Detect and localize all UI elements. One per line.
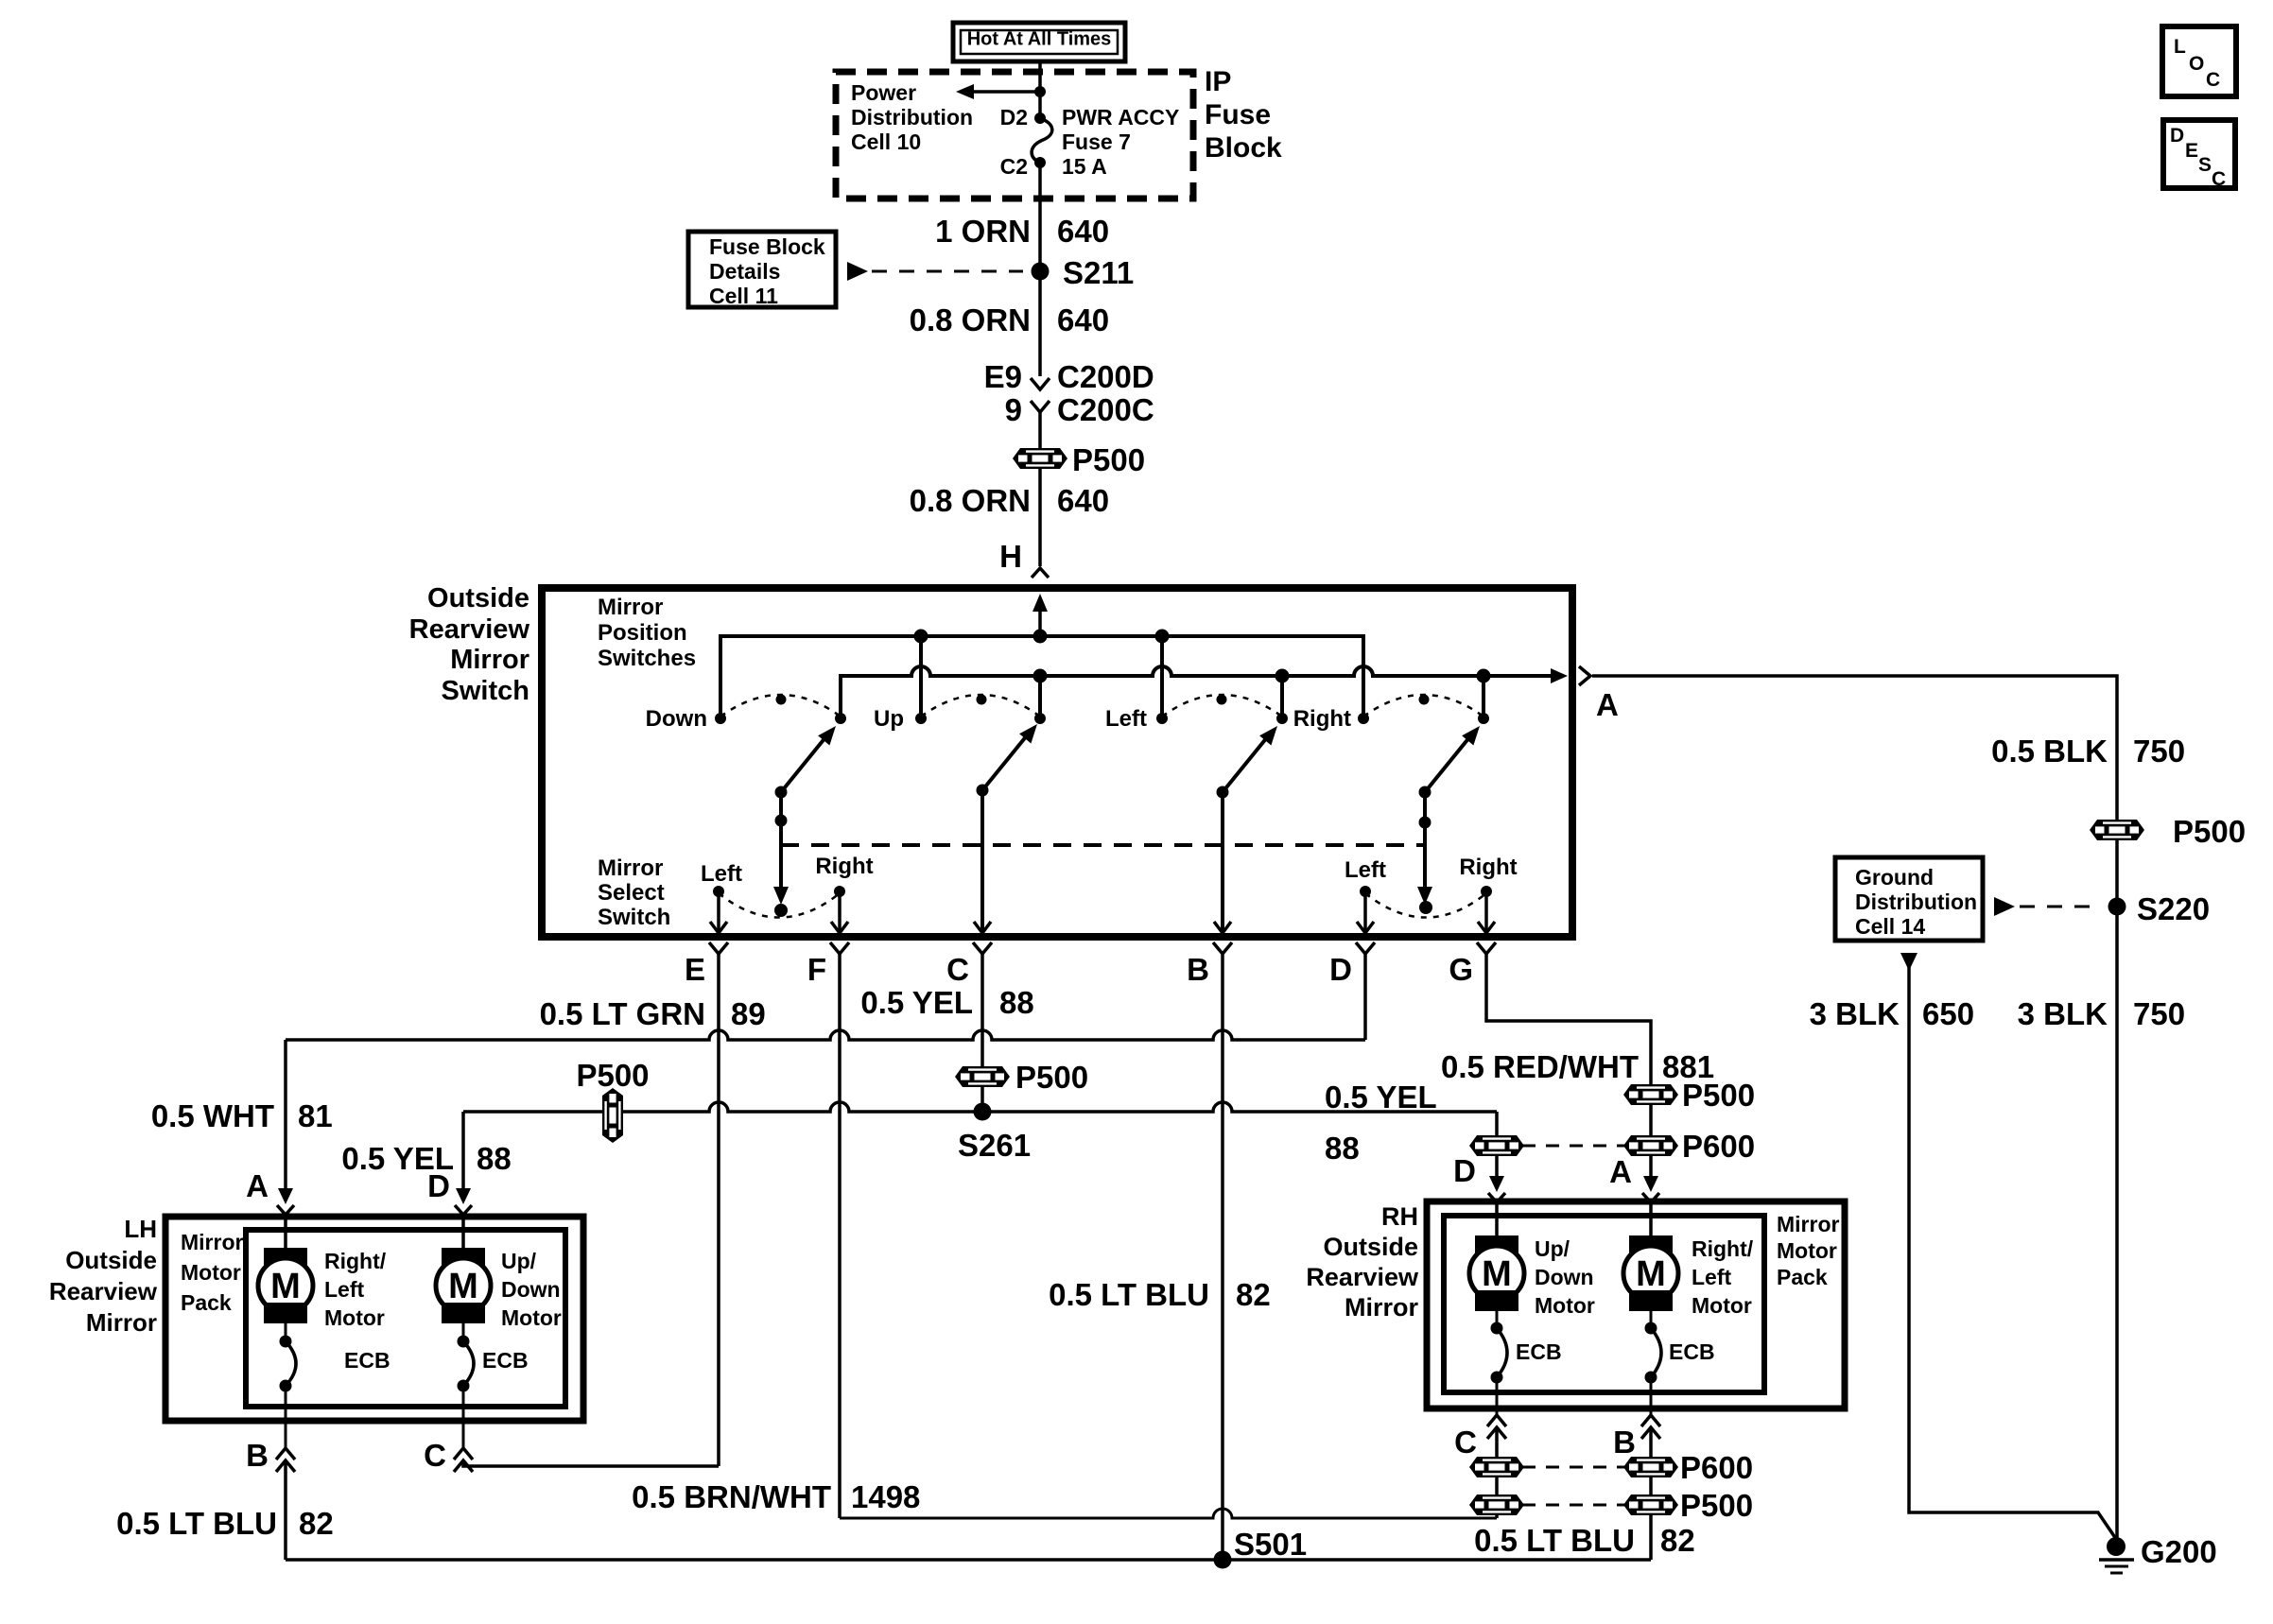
svg-text:0.5 YEL: 0.5 YEL (1325, 1080, 1437, 1114)
svg-text:E: E (685, 952, 705, 987)
connector P600 in-line (RH D wire) (1469, 1135, 1524, 1156)
svg-text:Pack: Pack (181, 1290, 232, 1315)
wire: select Right to pin F (arrow) (838, 891, 842, 932)
svg-text:0.5 BLK: 0.5 BLK (1991, 734, 2108, 769)
svg-text:0.5 LT BLU: 0.5 LT BLU (1474, 1523, 1635, 1558)
svg-text:0.5 LT BLU: 0.5 LT BLU (116, 1506, 277, 1541)
wire: wiper pair3 to pin B (arrow) (1221, 792, 1224, 932)
svg-text:Cell 14: Cell 14 (1855, 914, 1925, 939)
svg-text:Up/: Up/ (1535, 1236, 1570, 1261)
bus: switch power bus (upper) (720, 636, 1363, 718)
wire: 1 ORN 640 from fuse to S211 (1038, 163, 1042, 271)
svg-text:Left: Left (1345, 857, 1386, 883)
wire: pin G drop and over to RH pin A (1486, 953, 1651, 1178)
pointer from Ground Distribution to S220 (1994, 897, 2015, 916)
svg-text:Mirror: Mirror (1345, 1293, 1419, 1322)
wire: RH pin A to motor (1649, 1201, 1653, 1237)
select link left (dashed arc) (719, 893, 840, 918)
pin C of RH mirror (connector) (1487, 1415, 1506, 1426)
svg-text:P500: P500 (1680, 1488, 1753, 1523)
svg-text:Right/: Right/ (1692, 1236, 1754, 1261)
svg-text:D: D (1453, 1153, 1476, 1188)
dashed link between P600 halves (top) (1522, 1145, 1625, 1148)
wire: arrow to power distribution (961, 90, 1040, 94)
svg-text:Switches: Switches (598, 646, 696, 671)
svg-text:640: 640 (1057, 483, 1109, 518)
svg-text:Mirror: Mirror (1777, 1212, 1840, 1236)
svg-text:P500: P500 (1015, 1060, 1088, 1095)
svg-text:Hot At All Times: Hot At All Times (967, 29, 1112, 50)
svg-text:Right/: Right/ (324, 1249, 387, 1273)
node: rocker pair4 apex (1419, 695, 1430, 705)
node S501 (1214, 1551, 1232, 1569)
svg-text:640: 640 (1057, 302, 1109, 337)
svg-text:O: O (2189, 53, 2204, 75)
pin C2 of fuse (1034, 157, 1046, 168)
svg-text:Motor: Motor (1535, 1293, 1595, 1318)
wire: LH motor1 to ECB (285, 1323, 287, 1341)
svg-text:0.5 LT BLU: 0.5 LT BLU (1049, 1277, 1209, 1312)
svg-text:Motor: Motor (501, 1305, 562, 1330)
svg-text:S220: S220 (2137, 891, 2210, 926)
wire: RH pin B down through connectors (1649, 1427, 1653, 1560)
wire: pin E drop (717, 953, 720, 1466)
svg-text:Outside: Outside (65, 1246, 157, 1274)
connector P500 in-line (ground wire) (2090, 820, 2144, 840)
svg-text:PWR ACCY: PWR ACCY (1062, 105, 1179, 130)
svg-text:ECB: ECB (344, 1348, 390, 1373)
svg-text:S: S (2198, 154, 2212, 176)
component box: RH mirror motor pack (outer) (1427, 1201, 1845, 1408)
contact: Left (1156, 713, 1168, 724)
svg-text:C: C (2212, 168, 2226, 190)
svg-text:3 BLK: 3 BLK (2018, 996, 2108, 1031)
svg-text:P500: P500 (576, 1058, 649, 1093)
connector P500 (main feed) (1013, 448, 1067, 469)
wire: RH pin D drop (1495, 1112, 1499, 1178)
wiper arm pair2 (arrow) (982, 730, 1032, 790)
svg-text:Fuse 7: Fuse 7 (1062, 130, 1131, 154)
svg-text:Ground: Ground (1855, 865, 1934, 890)
contact: select right-Right (1481, 886, 1492, 897)
pin A of mirror switch (connector) (1579, 666, 1590, 685)
node: return bus at pair3 contact (1275, 669, 1290, 683)
svg-text:0.8 ORN: 0.8 ORN (910, 483, 1031, 518)
circuit breaker ECB (LH motor2) (458, 1336, 470, 1348)
svg-text:Outside: Outside (1323, 1233, 1418, 1261)
svg-text:ECB: ECB (1669, 1339, 1715, 1364)
svg-text:0.5 LT GRN: 0.5 LT GRN (540, 996, 705, 1031)
svg-text:0.5 YEL: 0.5 YEL (860, 985, 973, 1020)
svg-text:C: C (2206, 69, 2220, 91)
svg-text:P600: P600 (1682, 1129, 1755, 1164)
pin B of mirror switch (connector) (1213, 942, 1232, 954)
svg-text:1 ORN: 1 ORN (935, 214, 1031, 249)
node: power distribution branch (1034, 86, 1046, 97)
wire: LH pin A drop (284, 1040, 287, 1190)
svg-text:Mirror: Mirror (450, 645, 529, 675)
node: select wiper right (1419, 901, 1432, 914)
svg-text:Pack: Pack (1777, 1265, 1828, 1289)
svg-text:Down: Down (1535, 1265, 1594, 1289)
pin F of mirror switch (connector) (830, 942, 849, 954)
connector P600 in-line (RH B wire) (1623, 1457, 1678, 1477)
callout box: Fuse Block Details Cell 11 (688, 232, 836, 307)
wire: LH pin C over to pin E wire (463, 1460, 719, 1466)
svg-text:E: E (2185, 140, 2198, 162)
wire: from C200C to P500 (1038, 412, 1042, 566)
component box: LH mirror motor pack (outer) (165, 1217, 583, 1421)
legend box: LOC (2162, 26, 2236, 96)
wire: LH pin D run to RH mirror pin D (horizontal) (463, 1102, 1497, 1112)
connector P500 in-line (RH B wire) (1623, 1494, 1678, 1515)
fuse F7 PWR ACCY 15A (squiggle symbol) (1032, 118, 1052, 163)
svg-text:M: M (1482, 1254, 1512, 1294)
wire: pin D drop (1363, 953, 1367, 1040)
pin A of RH mirror (connector) (1643, 1176, 1658, 1192)
svg-text:Left: Left (1692, 1265, 1732, 1289)
pin D of mirror switch (connector) (1356, 942, 1375, 954)
pin B of LH mirror (connector) (276, 1448, 295, 1460)
callout box: Ground Distribution Cell 14 (1835, 857, 1983, 941)
svg-text:650: 650 (1922, 996, 1974, 1031)
svg-text:Motor: Motor (1777, 1238, 1837, 1263)
pin A of LH mirror (connector) (278, 1188, 293, 1204)
svg-text:F: F (807, 952, 826, 987)
svg-text:Details: Details (709, 259, 780, 284)
node: wiper pivot pair1 (775, 786, 788, 799)
mechanical link (dashed) between wipers (781, 843, 1425, 847)
wire: wiper pair4 to select wiper (1423, 792, 1427, 890)
svg-text:82: 82 (1660, 1523, 1695, 1558)
svg-text:0.8 ORN: 0.8 ORN (910, 302, 1031, 337)
svg-text:81: 81 (298, 1098, 333, 1133)
svg-text:Up/: Up/ (501, 1249, 537, 1273)
svg-text:C200C: C200C (1057, 392, 1154, 427)
motor: LH Up/Down motor (442, 1248, 485, 1269)
motor: RH Right/Left motor (1629, 1235, 1673, 1256)
pin D of RH mirror (connector) (1489, 1176, 1504, 1192)
svg-text:C: C (1454, 1425, 1477, 1460)
pin G of mirror switch (connector) (1477, 942, 1496, 954)
wire: RH motor1 to ECB (1496, 1311, 1499, 1328)
svg-text:H: H (999, 539, 1022, 574)
node: return bus at pair4 contact (1477, 669, 1491, 683)
svg-text:Outside: Outside (427, 583, 529, 613)
contact: pair1 right (835, 713, 846, 724)
wire: LH pin A to motor (284, 1217, 287, 1250)
svg-text:Up: Up (874, 706, 904, 732)
node S220 (2108, 898, 2126, 916)
contact: Down (715, 713, 726, 724)
node: select wiper left (774, 904, 788, 917)
ground G200 (2107, 1537, 2126, 1556)
motor: LH Right/Left motor (264, 1248, 307, 1269)
wire: pin C drop (980, 953, 984, 1112)
svg-text:Left: Left (701, 861, 742, 887)
svg-text:A: A (246, 1168, 269, 1203)
node: wiper pivot pair3 (1217, 786, 1229, 799)
svg-text:Mirror: Mirror (598, 595, 663, 620)
svg-text:88: 88 (1325, 1131, 1360, 1166)
node: wiper pair1 mid (775, 815, 788, 827)
connector P600 in-line (RH C wire) (1469, 1457, 1524, 1477)
contact: select left-Right (834, 886, 845, 897)
svg-text:E9: E9 (984, 359, 1022, 394)
wire: return bus to contact (pair3) (1280, 676, 1284, 718)
svg-text:750: 750 (2133, 996, 2185, 1031)
wire: LH pin B down to ground run (284, 1460, 287, 1560)
legend box: DESC (2163, 120, 2235, 188)
svg-text:82: 82 (299, 1506, 334, 1541)
circuit breaker ECB (RH motor1) (1491, 1322, 1503, 1335)
svg-text:A: A (1596, 687, 1619, 722)
wire: select Right to pin G (arrow) (1484, 891, 1488, 932)
svg-text:0.5 RED/WHT: 0.5 RED/WHT (1441, 1049, 1639, 1084)
svg-text:0.5 BRN/WHT: 0.5 BRN/WHT (632, 1479, 831, 1514)
svg-text:LH: LH (124, 1215, 157, 1243)
wire: select Left to pin E (arrow) (717, 891, 720, 932)
contact: pair4 right (1478, 713, 1489, 724)
svg-text:Switch: Switch (442, 676, 529, 706)
contact: pair2 right (1034, 713, 1046, 724)
svg-text:Cell 11: Cell 11 (709, 284, 778, 308)
wire: pin B drop (1221, 953, 1224, 1560)
wire: pin A to ground (0.5 BLK 750) (1592, 676, 2117, 1538)
wire: bus to Left contact (1160, 636, 1164, 718)
svg-text:C2: C2 (1000, 154, 1028, 179)
svg-text:Distribution: Distribution (851, 105, 973, 130)
wire: bus to Up contact (919, 636, 923, 718)
svg-text:D: D (2170, 125, 2184, 147)
svg-text:P500: P500 (1072, 442, 1145, 477)
svg-text:G: G (1449, 952, 1473, 987)
connector C200D pin E9 / C200C pin 9 (1031, 378, 1050, 389)
svg-text:Right: Right (1459, 855, 1517, 880)
wire: wiper pair2 to pin C (arrow) (980, 790, 984, 932)
svg-text:B: B (1613, 1425, 1636, 1460)
dashed link between P500 halves (bottom) (1522, 1504, 1625, 1507)
svg-text:IP: IP (1205, 66, 1231, 97)
svg-text:ECB: ECB (1516, 1339, 1562, 1364)
svg-text:Rearview: Rearview (49, 1277, 158, 1305)
rocker link pair2 (dashed arc) (921, 695, 1040, 717)
pin E of mirror switch (connector) (709, 942, 728, 954)
circuit breaker ECB (LH motor1) (280, 1336, 292, 1348)
svg-text:Block: Block (1205, 132, 1282, 164)
svg-text:L: L (2174, 36, 2186, 58)
rocker link pair4 (dashed arc) (1363, 695, 1484, 717)
svg-text:D2: D2 (1000, 105, 1028, 130)
svg-text:Distribution: Distribution (1855, 890, 1977, 914)
contact: pair3 right (1276, 713, 1288, 724)
wire: RH pin C down through connectors (1495, 1427, 1499, 1518)
contact: Right (1358, 713, 1369, 724)
contact: select right-Left (1360, 886, 1371, 897)
wire: ground distribution drop (3 BLK 650) (1900, 953, 1917, 971)
svg-text:B: B (1187, 952, 1209, 987)
svg-text:P500: P500 (1682, 1078, 1755, 1113)
wire: pin D run to LH mirror pin A (horizontal) (286, 1030, 1365, 1040)
svg-text:82: 82 (1236, 1277, 1271, 1312)
wire: LH ECB1 to pin B (285, 1386, 287, 1448)
wire: 0.8 ORN 640 from S211 to C200 (1038, 271, 1042, 376)
bus: switch return bus (lower, to pin A) (841, 666, 1551, 718)
node S211 (1032, 263, 1050, 281)
wire: RH pin D to motor (1495, 1201, 1499, 1237)
node: rocker pair1 apex (776, 695, 787, 705)
svg-text:Mirror: Mirror (181, 1230, 244, 1254)
svg-text:Rearview: Rearview (409, 614, 530, 645)
node: bus junction at Up contact (914, 630, 928, 644)
svg-text:Power: Power (851, 80, 916, 105)
svg-text:640: 640 (1057, 214, 1109, 249)
pin C of mirror switch (connector) (973, 942, 992, 954)
svg-text:15 A: 15 A (1062, 154, 1107, 179)
svg-text:3 BLK: 3 BLK (1810, 996, 1900, 1031)
svg-text:Down: Down (501, 1277, 561, 1302)
svg-text:Fuse Block: Fuse Block (709, 234, 825, 259)
wire: return bus to contact (pair2) (1038, 676, 1042, 718)
pin C of LH mirror (connector) (454, 1448, 473, 1460)
connector P500 in-line (LH D wire, vertical) (602, 1088, 623, 1143)
wire: pin F run to RH pin C (horizontal) (840, 1509, 1497, 1518)
svg-text:0.5 WHT: 0.5 WHT (151, 1098, 274, 1133)
contact: Up (915, 713, 927, 724)
wire: RH motor2 to ECB (1650, 1311, 1653, 1328)
svg-text:Down: Down (646, 706, 707, 732)
node: wiper pivot pair4 (1419, 786, 1431, 799)
contact: select left-Left (713, 886, 724, 897)
rocker link pair3 (dashed arc) (1162, 695, 1282, 717)
svg-text:750: 750 (2133, 734, 2185, 769)
wire: RH ECB2 to pin B (1650, 1377, 1653, 1415)
node: rocker pair2 apex (977, 695, 987, 705)
component box: RH mirror motor pack (inner) (1444, 1216, 1764, 1392)
wire: return bus to contact (pair4) (1482, 676, 1485, 718)
wiper arm pair4 (arrow) (1425, 732, 1474, 792)
svg-text:88: 88 (477, 1141, 512, 1176)
node: wiper pivot pair2 (977, 785, 989, 797)
wire: LH ECB2 to pin C (462, 1386, 465, 1448)
pointer from Fuse Block Details to S211 (847, 262, 868, 281)
wire: pin F drop (838, 953, 842, 1518)
svg-text:A: A (1609, 1154, 1632, 1189)
wire: LH pin D to motor (461, 1217, 465, 1250)
node: return bus at pair2 contact (1033, 669, 1048, 683)
wire: LH pin D drop (461, 1112, 465, 1190)
wire: RH ECB1 to pin C (1496, 1377, 1499, 1415)
circuit breaker ECB (RH motor2) (1645, 1322, 1657, 1335)
wiper arm pair1 (arrow) (781, 732, 830, 792)
node: wiper pair4 mid (1419, 817, 1431, 829)
wire: ground run S501 (bottom horizontal) (286, 1558, 1651, 1562)
svg-text:M: M (270, 1267, 301, 1306)
power feed label box: Hot At All Times (953, 23, 1125, 61)
svg-text:RH: RH (1381, 1202, 1418, 1231)
IP Fuse Block (dashed outline) (836, 72, 1193, 199)
svg-text:1498: 1498 (851, 1479, 920, 1514)
connector P500 in-line (RH C wire) (1469, 1494, 1524, 1515)
svg-text:C200D: C200D (1057, 359, 1154, 394)
wire: wiper pair1 to select wiper (779, 792, 783, 890)
svg-text:M: M (1636, 1254, 1666, 1294)
svg-text:Motor: Motor (324, 1305, 385, 1330)
svg-text:D: D (1329, 952, 1352, 987)
svg-text:9: 9 (1005, 392, 1022, 427)
svg-text:Rearview: Rearview (1306, 1263, 1419, 1291)
node: bus junction at H feed (1033, 630, 1048, 644)
node S261 (974, 1103, 992, 1121)
svg-text:Motor: Motor (1692, 1293, 1752, 1318)
rocker link pair1 (dashed arc) (720, 695, 841, 717)
svg-text:G200: G200 (2141, 1534, 2217, 1569)
component box: Outside Rearview Mirror Switch (542, 588, 1572, 937)
svg-text:S211: S211 (1063, 255, 1134, 290)
svg-text:S261: S261 (958, 1128, 1031, 1163)
pin D2 of fuse (1034, 112, 1046, 124)
wire: battery feed into fuse block (1038, 61, 1042, 118)
connector P500 in-line (RH A wire) (1623, 1084, 1678, 1105)
svg-text:Mirror: Mirror (86, 1308, 157, 1337)
svg-text:D: D (427, 1168, 450, 1203)
component box: LH mirror motor pack (inner) (246, 1230, 565, 1407)
node: rocker pair3 apex (1217, 695, 1227, 705)
select link right (dashed arc) (1365, 893, 1486, 918)
svg-text:P500: P500 (2173, 814, 2246, 849)
svg-text:Motor: Motor (181, 1260, 241, 1285)
svg-text:C: C (424, 1438, 446, 1473)
svg-text:ECB: ECB (482, 1348, 529, 1373)
connector P500 in-line (pin C wire) (955, 1066, 1010, 1087)
node: bus junction at Left contact (1155, 630, 1170, 644)
connector P600 in-line (RH A wire) (1623, 1135, 1678, 1156)
svg-text:Left: Left (324, 1277, 365, 1302)
pin B of RH mirror (connector) (1641, 1415, 1660, 1426)
wire: select Left to pin D (arrow) (1363, 891, 1367, 932)
svg-text:M: M (448, 1267, 478, 1306)
wiper arm pair3 (arrow) (1223, 732, 1272, 792)
svg-text:Position: Position (598, 620, 687, 646)
svg-text:B: B (246, 1438, 269, 1473)
svg-text:P600: P600 (1680, 1450, 1753, 1485)
motor: RH Up/Down motor (1475, 1235, 1518, 1256)
svg-text:Switch: Switch (598, 905, 670, 930)
svg-text:Right: Right (1293, 706, 1351, 732)
svg-text:Right: Right (815, 854, 873, 879)
pin D of LH mirror (connector) (456, 1188, 471, 1204)
svg-text:Mirror: Mirror (598, 855, 663, 881)
svg-text:Fuse: Fuse (1205, 99, 1271, 130)
svg-text:S501: S501 (1234, 1527, 1307, 1562)
svg-text:88: 88 (999, 985, 1034, 1020)
svg-text:Cell 10: Cell 10 (851, 130, 921, 154)
wire: pin H into switch (arrow up) (1038, 599, 1042, 636)
svg-text:Left: Left (1105, 706, 1147, 732)
wire: LH motor2 to ECB (462, 1323, 465, 1341)
dashed link between P600 halves (bottom) (1522, 1466, 1625, 1469)
svg-text:89: 89 (731, 996, 766, 1031)
svg-text:Select: Select (598, 880, 665, 906)
svg-text:C: C (946, 952, 969, 987)
